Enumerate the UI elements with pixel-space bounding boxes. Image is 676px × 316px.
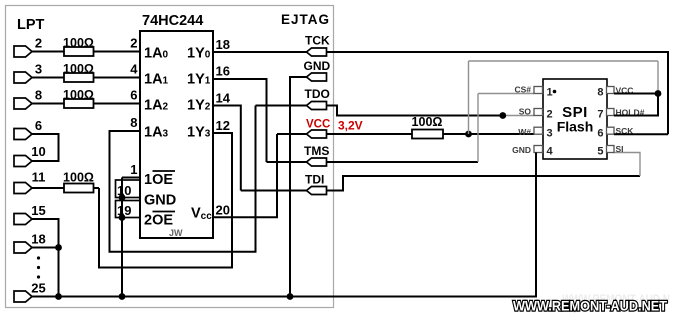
- resistor R2 100ohm: [64, 73, 94, 82]
- svg-text:3,2V: 3,2V: [338, 119, 363, 133]
- connector LPT pin 10: [14, 156, 32, 167]
- wire LPT15 down to ground rail: [32, 219, 59, 297]
- wire VCC to R5: [327, 133, 413, 135]
- resistor R1 100ohm: [64, 47, 94, 56]
- IC U1 74HC244 body: [140, 31, 213, 238]
- svg-text:8: 8: [35, 88, 42, 103]
- svg-text:2OE: 2OE: [144, 213, 173, 229]
- wire GND pin4 down to ground rail: [535, 153, 537, 297]
- wire LPT2 to R1: [32, 51, 64, 53]
- svg-text:TDO: TDO: [305, 87, 330, 101]
- svg-text:EJTAG: EJTAG: [281, 12, 330, 27]
- svg-text:2: 2: [35, 36, 42, 51]
- svg-text:25: 25: [31, 281, 45, 296]
- connector LPT pin 6: [14, 129, 32, 140]
- svg-text:100Ω: 100Ω: [63, 171, 94, 185]
- svg-text:TMS: TMS: [304, 144, 329, 158]
- gray VCC riser up: [468, 61, 470, 134]
- wire LPT3 to R2: [32, 77, 64, 79]
- svg-text:16: 16: [216, 64, 230, 79]
- resistor R3 100ohm: [64, 99, 94, 108]
- pin1 marker dot: [553, 90, 557, 94]
- gray VCC top run: [469, 60, 659, 62]
- pin stub SO (2): [534, 109, 543, 116]
- svg-text:GND: GND: [512, 145, 531, 155]
- wire VCC tag left stub: [277, 133, 307, 135]
- resistor R5 100ohm: [412, 130, 443, 139]
- svg-text:GND: GND: [304, 59, 331, 73]
- wire SO gray segment: [503, 115, 534, 117]
- pin stub SCK (6): [607, 127, 615, 134]
- svg-text:100Ω: 100Ω: [63, 62, 94, 76]
- svg-text:14: 14: [216, 91, 231, 106]
- junction dot on SO wire: [499, 112, 506, 119]
- wire R4 to 1Y3 riser: [94, 187, 100, 189]
- svg-text:1: 1: [547, 87, 553, 99]
- svg-text:3: 3: [35, 62, 42, 77]
- connector LPT pin 8: [14, 98, 32, 109]
- pin stub CS# (1): [534, 87, 543, 94]
- gray wire SI riser: [614, 153, 641, 177]
- svg-text:WWW.REMONT-AUD.NET: WWW.REMONT-AUD.NET: [513, 298, 667, 314]
- wire junction down to HOLD#: [614, 94, 658, 116]
- wire 1A3 to TDO riser (down-right step): [110, 106, 256, 252]
- svg-text:2: 2: [547, 109, 553, 121]
- wire TDO line to tag: [256, 105, 307, 107]
- connector LPT pin 11: [14, 183, 32, 194]
- svg-text:SI: SI: [616, 144, 624, 154]
- wire SCK to TCK drop: [614, 133, 668, 135]
- svg-text:6: 6: [130, 88, 137, 103]
- connector LPT pin 18: [14, 242, 32, 253]
- svg-text:18: 18: [216, 37, 230, 52]
- overline: [153, 170, 176, 172]
- svg-text:18: 18: [31, 232, 45, 247]
- connector LPT pin 3: [14, 72, 32, 83]
- pin stub VCC (8): [607, 87, 615, 94]
- connector TCK tag: [307, 48, 327, 56]
- wire CS# riser (gray): [477, 94, 479, 163]
- overline: [153, 211, 176, 213]
- pin 10 designator box: [116, 180, 141, 198]
- junction OE riser / pin10 wire: [119, 194, 126, 201]
- wire R1 to 1A0: [94, 51, 141, 53]
- svg-text:6: 6: [597, 128, 603, 140]
- wire R2 to 1A1: [94, 77, 141, 79]
- wire pin1 to OE riser: [122, 177, 140, 179]
- wire R3 to 1A2: [94, 103, 141, 105]
- junction rail/OE riser: [119, 293, 126, 300]
- gray VCC drop to pin8: [657, 61, 659, 94]
- pin stub HOLD# (7): [607, 109, 615, 116]
- svg-text:4: 4: [130, 62, 138, 77]
- svg-text:15: 15: [31, 203, 45, 218]
- wire VCC junction to W# pin: [469, 133, 535, 135]
- junction OE riser / pin19 wire: [119, 214, 126, 221]
- wire TDO to SO of flash: [327, 106, 503, 116]
- connector GND tag: [307, 73, 327, 81]
- svg-text:1OE: 1OE: [144, 172, 173, 188]
- svg-text:SO: SO: [519, 107, 532, 117]
- junction VCC net: [465, 131, 472, 138]
- wire TDI to SI of flash: [327, 176, 641, 191]
- svg-text:JW: JW: [169, 228, 183, 238]
- connector TDO tag: [307, 102, 327, 110]
- svg-text:20: 20: [216, 203, 230, 218]
- junction LPT18/15: [55, 244, 62, 251]
- svg-text:3: 3: [547, 128, 553, 140]
- svg-text:7: 7: [597, 109, 603, 121]
- svg-text:8: 8: [597, 87, 603, 99]
- wire 1Y1 stub into TMS tag: [267, 161, 307, 163]
- connector LPT pin 25: [14, 291, 32, 302]
- svg-text:2: 2: [130, 36, 137, 51]
- ground rail wire: [32, 296, 537, 298]
- svg-text:TCK: TCK: [305, 34, 330, 48]
- wire TMS to CS# riser: [327, 161, 479, 163]
- wire 1Y3 to R4 (down-left step): [99, 133, 232, 268]
- SPI flash U2 body: [543, 79, 607, 159]
- junction rail/EJTAG-GND riser: [287, 293, 294, 300]
- junction rail/15-18: [55, 293, 62, 300]
- connector VCC tag: [307, 130, 327, 138]
- resistor R4 100ohm: [64, 184, 94, 193]
- svg-text:VCC: VCC: [306, 119, 330, 131]
- wire R5 to W# junction: [443, 133, 469, 135]
- wire LPT6 loop to LPT10: [32, 134, 59, 161]
- svg-text:6: 6: [35, 118, 42, 133]
- connector TDI tag: [307, 187, 327, 195]
- pin stub GND (4): [534, 146, 543, 153]
- svg-text:GND: GND: [144, 193, 176, 209]
- wire LPT8 to R3: [32, 103, 64, 105]
- svg-text:4: 4: [547, 146, 554, 158]
- wire LPT11 to R4: [32, 187, 64, 189]
- junction VCC/HOLD: [655, 90, 662, 97]
- svg-text:11: 11: [32, 170, 46, 185]
- wire Vcc20 up to VCC net: [213, 134, 277, 217]
- svg-text:74HC244: 74HC244: [142, 13, 203, 29]
- wire TDI tag left stub: [241, 190, 307, 192]
- connector TMS tag: [307, 158, 327, 166]
- svg-text:100Ω: 100Ω: [412, 115, 443, 129]
- svg-text:W#: W#: [518, 127, 531, 137]
- wire 1Y2 down to TDI: [213, 106, 241, 191]
- svg-text:100Ω: 100Ω: [63, 88, 94, 102]
- wire VCC pin8 to junction: [614, 93, 658, 95]
- svg-text:5: 5: [597, 146, 603, 158]
- svg-text:CS#: CS#: [514, 85, 531, 95]
- svg-text:12: 12: [216, 118, 230, 133]
- svg-text:1: 1: [130, 162, 137, 177]
- ellipsis dots: [37, 256, 40, 259]
- svg-text:10: 10: [31, 144, 45, 159]
- left panel border frame: [6, 6, 334, 308]
- pin stub SI (5): [607, 146, 615, 153]
- wire EJTAG GND to ground rail: [290, 77, 307, 297]
- wire 1Y1 down to TMS: [213, 79, 267, 162]
- wire LPT18 to rail: [32, 247, 59, 249]
- svg-text:TDI: TDI: [305, 173, 324, 187]
- wire TCK to right edge and down to SCK: [327, 52, 669, 134]
- svg-text:Flash: Flash: [557, 119, 594, 135]
- OE/GND riser to ground rail: [121, 178, 123, 297]
- svg-text:100Ω: 100Ω: [63, 36, 94, 50]
- svg-text:LPT: LPT: [17, 17, 45, 33]
- pin stub W# (3): [534, 127, 543, 134]
- svg-text:8: 8: [130, 115, 137, 130]
- gray wire CS#: [478, 93, 534, 95]
- connector LPT pin 2: [14, 46, 32, 57]
- connector LPT pin 15: [14, 214, 32, 225]
- wire 1Y0 to TCK tag: [213, 51, 307, 53]
- pin 19 designator box: [116, 201, 141, 218]
